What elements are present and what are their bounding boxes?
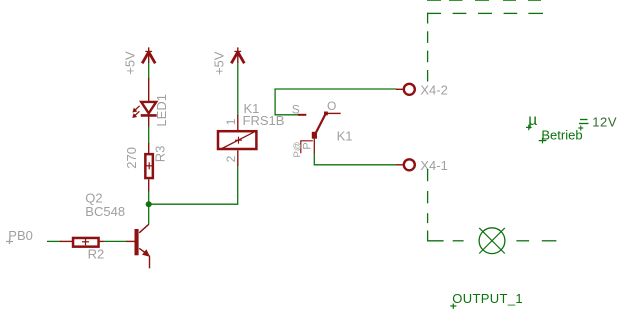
wire R2 to Q2 base bbox=[104, 240, 127, 242]
wire junction to Q2 collector bbox=[148, 204, 150, 224]
junction node collector/R3/K1-coil bbox=[146, 201, 152, 207]
battery symbol (12V supply) bbox=[578, 120, 588, 131]
resistor R3 bbox=[145, 143, 153, 192]
terminal X4-1 bbox=[396, 159, 415, 170]
transistor Q2 bbox=[126, 224, 150, 268]
wire P contact to X4-1 net bbox=[314, 153, 396, 165]
wire PB0 to R2 bbox=[47, 240, 61, 242]
svg-text:X4-1: X4-1 bbox=[420, 158, 447, 173]
svg-text:Betrieb: Betrieb bbox=[541, 128, 582, 143]
wire LED1 cathode to R3 bbox=[148, 127, 150, 145]
svg-text:X4-2: X4-2 bbox=[420, 83, 447, 98]
dashed boundary, clipped line at image top bbox=[427, 0, 541, 1]
svg-text:K1: K1 bbox=[337, 128, 353, 143]
svg-text:OUTPUT_1: OUTPUT_1 bbox=[452, 291, 523, 306]
svg-text:2: 2 bbox=[224, 155, 238, 162]
dashed boundary bottom edge bbox=[427, 240, 556, 242]
svg-text:O: O bbox=[327, 99, 336, 113]
+5V supply symbol (relay branch) bbox=[231, 47, 244, 63]
svg-text:12V: 12V bbox=[592, 114, 617, 129]
relay coil K1 bbox=[218, 115, 257, 166]
dashed boundary top edge bbox=[427, 12, 543, 14]
LED LED1 bbox=[133, 78, 157, 127]
wire +5V to LED1 anode bbox=[148, 63, 150, 79]
resistor R2 bbox=[60, 238, 104, 247]
lamp OUTPUT_1 bbox=[479, 228, 505, 254]
relay contact K1 bbox=[298, 112, 341, 154]
svg-text:+5V: +5V bbox=[123, 51, 138, 75]
anchor cross mu bbox=[526, 125, 532, 131]
svg-text:R3: R3 bbox=[152, 146, 167, 163]
net anchor cross PB0 bbox=[6, 239, 13, 244]
anchor cross Betrieb bbox=[539, 138, 547, 144]
svg-text:LED1: LED1 bbox=[154, 94, 169, 127]
svg-text:S: S bbox=[292, 102, 300, 116]
terminal X4-2 bbox=[396, 84, 415, 95]
svg-text:BC548: BC548 bbox=[85, 204, 125, 219]
svg-text:1: 1 bbox=[224, 118, 238, 125]
wire R3 to junction bbox=[148, 191, 150, 204]
anchor cross OUTPUT_1 bbox=[450, 304, 456, 309]
svg-text:R2: R2 bbox=[88, 246, 105, 261]
svg-text:µ: µ bbox=[528, 112, 537, 129]
svg-text:P: P bbox=[301, 142, 313, 149]
svg-text:P@: P@ bbox=[292, 142, 303, 158]
svg-text:270: 270 bbox=[124, 147, 139, 169]
+5V supply symbol (LED branch) bbox=[142, 47, 155, 63]
svg-text:+5V: +5V bbox=[212, 51, 227, 75]
wire S contact to X4-2 net bbox=[275, 89, 396, 115]
wire +5V to K1 coil pin 1 bbox=[237, 63, 239, 116]
wire junction to K1 coil pin 2 bbox=[149, 166, 238, 205]
dashed boundary left edge bbox=[427, 13, 429, 241]
